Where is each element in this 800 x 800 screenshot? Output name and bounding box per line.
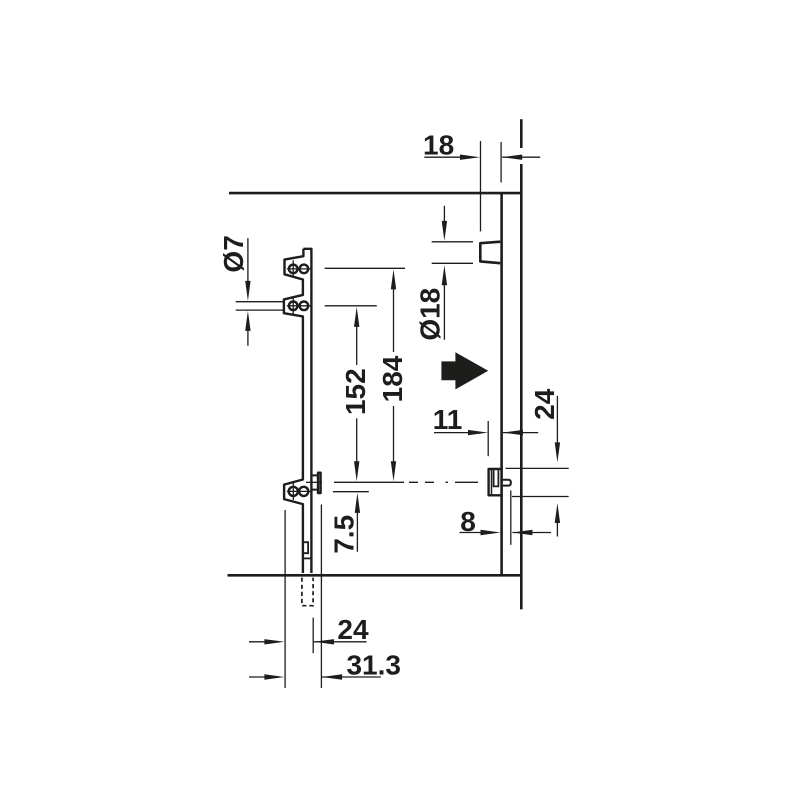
dimension 8 extension line (510, 491, 512, 545)
dimension 11 tail line (503, 432, 538, 434)
dimension 184 top extension line (325, 267, 405, 269)
svg-text:152: 152 (340, 368, 371, 415)
top panel line (229, 192, 523, 195)
wall socket clip slot (494, 470, 499, 486)
dimension 24 right down arrowhead (555, 442, 560, 462)
hook pin center line solid segment through pin (306, 481, 322, 483)
screw hole bottom pair left circle (289, 487, 298, 496)
dimension 18 line (424, 156, 462, 158)
dimension d18 lower extension line (432, 262, 473, 264)
dimension d7 upper extension line (236, 301, 285, 303)
dimension d7 lower extension line (236, 309, 285, 311)
dimension d18 upper extension line (432, 241, 473, 243)
dimension 7.5 lower extension line (333, 491, 369, 493)
screw hole second pair left circle (289, 302, 298, 311)
dimension 152 down arrowhead (354, 461, 359, 481)
dimension 184 upper line (393, 289, 395, 353)
dimension d7 up arrowhead (245, 311, 250, 331)
dimension 18 right arrowhead (460, 155, 480, 160)
dowel tab in side panel (480, 242, 500, 264)
svg-text:11: 11 (433, 404, 463, 435)
svg-text:7.5: 7.5 (328, 515, 359, 554)
mounting rail left profile with bracket tabs (284, 249, 304, 573)
dimension d18 down arrowhead (442, 221, 447, 241)
dimension 24 right lower line (556, 522, 558, 537)
dimension 184 up arrowhead (391, 269, 396, 289)
bottom pair vertical center line (292, 483, 294, 500)
dimension 24 bottom tail line right (314, 641, 367, 643)
svg-text:31.3: 31.3 (346, 650, 401, 681)
upper pair horizontal center line (287, 268, 312, 270)
wall socket clip inner line (491, 470, 493, 494)
dimension d7 lower arrow line (247, 330, 249, 346)
svg-text:Ø7: Ø7 (218, 235, 249, 272)
svg-text:Ø18: Ø18 (415, 288, 446, 341)
hook pin center line dash-dot segments (409, 481, 478, 483)
wall socket clip outline (489, 469, 503, 495)
dimension 11 left arrowhead (503, 430, 523, 435)
svg-text:184: 184 (377, 355, 408, 402)
bottom 31.3 extension line (320, 505, 322, 689)
dimension 11 extension line (487, 421, 489, 456)
dimension 31.3 right arrowhead (264, 674, 284, 679)
dimension 8 line (460, 532, 483, 534)
dimension 8 right arrowhead (481, 530, 501, 535)
rail hook pin stem (311, 475, 317, 489)
mounting rail top and right edge (303, 249, 311, 573)
cabinet front edge vertical line (lower segment) (520, 164, 523, 609)
second pair horizontal center line (287, 305, 312, 307)
bottom pair horizontal center line (287, 490, 312, 492)
svg-text:18: 18 (423, 130, 454, 161)
svg-text:24: 24 (529, 388, 560, 420)
dimension 8 tail line (512, 532, 551, 534)
big mounting direction arrow (441, 352, 488, 389)
dimension 152 upper line (356, 326, 358, 365)
dimension 7.5 up arrowhead (355, 493, 360, 513)
dimension 31.3 left arrowhead (322, 674, 342, 679)
rail bottom slot (303, 542, 308, 553)
rail cross line (303, 557, 312, 559)
svg-text:24: 24 (337, 614, 369, 645)
dimension 11 line (434, 432, 470, 434)
dimension 7.5 arrow line (356, 512, 358, 552)
dimension 184 down arrowhead (391, 461, 396, 481)
rail hook pin head bar (318, 473, 321, 493)
dimension 24 right up arrowhead (555, 503, 560, 523)
dimension 24 right upper extension line (506, 467, 569, 469)
dashed drill hole in bottom panel (302, 578, 313, 606)
dimension d18 lower arrow line (443, 284, 445, 340)
second pair vertical center line (292, 297, 294, 314)
dimension 18 tail line (502, 156, 540, 158)
dimension d7 down arrowhead (245, 281, 250, 301)
bottom 24 extension line (312, 618, 314, 654)
dimension 152 top extension line (325, 305, 377, 307)
screw hole upper pair left circle (289, 265, 298, 274)
dimension d18 up arrowhead (442, 265, 447, 285)
bottom panel line (228, 574, 523, 577)
hook pin center line long solid segment (334, 481, 404, 483)
dimension 18 extension line right (500, 142, 502, 183)
dimension 24 bottom tail line left (249, 641, 266, 643)
dimension 24 bottom right arrowhead (264, 639, 284, 644)
dimension 11 right arrowhead (468, 430, 488, 435)
screw hole second pair right circle (300, 302, 309, 311)
dimension 18 left arrowhead (502, 155, 522, 160)
dimension 8 left arrowhead (512, 530, 532, 535)
bottom left extension line (284, 510, 286, 688)
upper pair vertical center line (292, 260, 294, 277)
cabinet front edge vertical line (upper segment) (520, 119, 523, 148)
dimension 184 lower line (393, 406, 395, 462)
dimension 24 right lower extension line (512, 496, 569, 498)
cabinet side inner vertical line (500, 193, 503, 575)
dimension 31.3 tail line right (322, 676, 381, 678)
dimension 18 extension line left (480, 141, 482, 231)
dimension 24 bottom left arrowhead (314, 639, 334, 644)
screw hole upper pair right circle (300, 265, 309, 274)
dimension 31.3 tail line left (249, 676, 266, 678)
dimension 152 lower line (356, 418, 358, 462)
dimension d18 upper arrow line (443, 206, 445, 222)
dimension 152 up arrowhead (354, 307, 359, 327)
screw hole bottom pair right circle (299, 487, 308, 496)
wall socket clip pin (503, 480, 511, 486)
dimension 24 right upper line (556, 396, 558, 444)
dimension d7 upper arrow line (247, 238, 249, 282)
